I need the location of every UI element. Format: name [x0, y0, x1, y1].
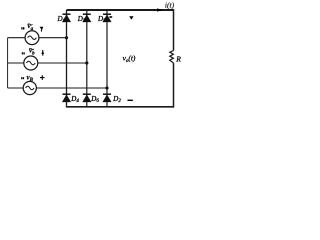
wire bridge leg b: [86, 10, 88, 107]
svg-text:R: R: [175, 55, 181, 64]
node phase b junction: [85, 61, 88, 64]
diode D1: [63, 14, 71, 22]
svg-text:vo(t): vo(t): [123, 54, 136, 64]
wire phase b left: [8, 62, 24, 64]
diode D4: [63, 94, 71, 102]
node phase a junction: [65, 36, 68, 39]
wire bottom bus: [66, 106, 174, 108]
wire top bus: [67, 9, 174, 11]
diode D5: [103, 14, 111, 22]
wire bridge leg a: [66, 10, 68, 107]
source vb: [24, 56, 38, 70]
resistor R: [170, 51, 174, 64]
wire phase c right: [36, 87, 107, 89]
svg-text:D5: D5: [97, 15, 106, 24]
svg-text:D1: D1: [57, 15, 66, 24]
wire bridge leg c: [106, 10, 108, 107]
wire left neutral rail: [7, 38, 9, 88]
label i(t) with arrow: [157, 1, 175, 12]
wire right rail lower: [173, 63, 175, 108]
label vc with polarity: [21, 73, 44, 83]
svg-text:D2: D2: [112, 95, 121, 104]
wire phase a right: [39, 37, 67, 39]
svg-text:D6: D6: [90, 95, 99, 104]
diode D6: [83, 94, 91, 102]
svg-text:i(t): i(t): [165, 1, 175, 10]
label vb with polarity: [22, 47, 44, 57]
diode D2: [103, 94, 111, 102]
wire phase a left: [8, 37, 26, 39]
label va with polarity: [21, 22, 43, 32]
wire phase c left: [8, 87, 24, 89]
node ink mark right of D5 bar: [109, 16, 112, 18]
svg-text:D4: D4: [70, 95, 79, 104]
wire right rail upper: [173, 9, 175, 50]
label - output polarity: [128, 100, 133, 101]
wire phase b right: [38, 62, 87, 64]
label + output polarity: [129, 16, 133, 19]
source va: [25, 31, 39, 45]
diode D3: [83, 14, 91, 22]
source vc: [23, 81, 36, 94]
node phase c junction: [105, 86, 108, 89]
svg-text:D3: D3: [77, 15, 86, 24]
